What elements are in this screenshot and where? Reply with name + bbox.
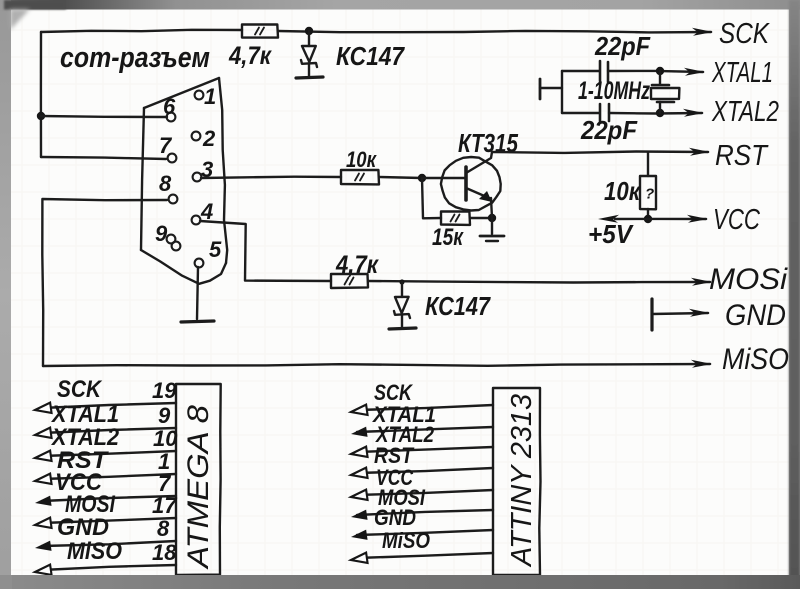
svg-text:10к: 10к [604,176,642,206]
svg-text:GND: GND [374,505,416,530]
svg-text:ATTINY 2313: ATTINY 2313 [506,394,538,568]
svg-text:XTAL1: XTAL1 [711,57,773,89]
svg-text:?: ? [645,186,654,203]
svg-text:1-10MHz: 1-10MHz [578,77,650,105]
svg-text:10к: 10к [346,147,378,172]
svg-text:MiSO: MiSO [722,343,789,376]
svg-text:MOSi: MOSi [709,263,788,296]
svg-text:КС147: КС147 [336,41,405,71]
svg-text:18: 18 [152,540,177,565]
svg-text:VCC: VCC [713,204,761,236]
svg-text:8: 8 [159,171,172,196]
svg-text:+5V: +5V [588,219,634,249]
svg-text:MiSO: MiSO [67,538,122,565]
svg-text:RST: RST [715,140,769,172]
svg-text:КС147: КС147 [425,291,491,321]
svg-text:MiSO: MiSO [382,528,430,553]
svg-text:22pF: 22pF [594,31,651,61]
svg-text:22pF: 22pF [580,115,638,145]
svg-text:17: 17 [152,493,178,518]
svg-text:XTAL2: XTAL2 [711,96,779,128]
svg-text:5: 5 [209,237,222,262]
svg-text:2: 2 [202,126,216,151]
svg-text:GND: GND [725,299,786,332]
svg-text:SCK: SCK [719,18,770,50]
svg-text:8: 8 [157,516,170,541]
svg-text:4,7к: 4,7к [228,42,272,70]
svg-text:9: 9 [155,221,168,246]
svg-text:15к: 15к [432,224,464,251]
svg-text:9: 9 [158,403,171,428]
svg-text:ATMEGA 8: ATMEGA 8 [182,405,215,571]
svg-text:1: 1 [204,84,216,109]
svg-text:КТ315: КТ315 [458,128,518,158]
svg-text:7: 7 [159,133,173,158]
svg-text:SCK: SCK [57,376,102,403]
svg-text:19: 19 [152,378,177,403]
svg-text:com-разъем: com-разъем [60,42,210,74]
svg-text:6: 6 [163,94,176,119]
svg-text:10: 10 [153,426,178,451]
svg-text:GND: GND [57,514,109,541]
